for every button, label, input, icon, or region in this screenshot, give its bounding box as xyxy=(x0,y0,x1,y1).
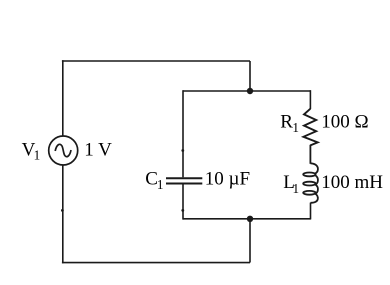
inductor L1 arc 3 xyxy=(315,185,318,195)
svg-text:1: 1 xyxy=(292,120,299,135)
node: small junction mark on capacitor branch lower xyxy=(181,209,184,212)
wire: bottom node horizontal xyxy=(183,218,311,220)
wire: outer top horizontal xyxy=(62,60,250,62)
svg-text:1: 1 xyxy=(293,181,300,196)
inductor L1 bottom arc xyxy=(311,194,318,203)
source V1 circle xyxy=(49,136,78,165)
svg-text:R: R xyxy=(280,111,293,132)
wire: capacitor branch lower xyxy=(182,184,184,219)
svg-text:1 V: 1 V xyxy=(84,140,112,161)
svg-text:1: 1 xyxy=(157,177,164,192)
inductor L1 loop ellipse 3 xyxy=(303,191,315,195)
inductor L1 loop ellipse 2 xyxy=(303,182,315,186)
inductor L1 loop ellipse 1 xyxy=(303,173,315,177)
capacitor C1 top plate xyxy=(166,177,202,179)
wire: outer left vertical (below source) xyxy=(62,165,64,263)
wire: top drop from outer loop to node xyxy=(249,61,251,91)
wire: R-L branch top stub xyxy=(309,90,311,109)
source V1 sine wave xyxy=(55,144,71,156)
wire: bottom rise from outer loop to node xyxy=(249,219,251,263)
wire: R-L branch bottom stub xyxy=(310,203,312,220)
wire: outer bottom horizontal xyxy=(62,262,250,264)
wire: between resistor and inductor xyxy=(309,145,311,164)
svg-text:100 mH: 100 mH xyxy=(321,172,383,193)
wire: outer left vertical (above source) xyxy=(62,60,64,136)
wire: capacitor branch upper xyxy=(182,90,184,177)
svg-text:10 µF: 10 µF xyxy=(205,169,250,190)
inductor L1 arc 2 xyxy=(315,175,318,185)
resistor R1 zigzag xyxy=(303,109,317,146)
node junction dot (top, at 250,90) xyxy=(247,88,253,94)
svg-text:100 Ω: 100 Ω xyxy=(321,111,368,132)
inductor L1 top arc xyxy=(311,163,318,173)
node: small junction mark on left wire xyxy=(61,209,64,212)
capacitor C1 bottom plate xyxy=(166,183,202,185)
svg-text:1: 1 xyxy=(34,148,41,163)
node junction dot (bottom, at 250,219) xyxy=(247,216,253,222)
node: small junction mark on capacitor branch xyxy=(181,149,184,152)
wire: top node horizontal xyxy=(183,90,311,92)
